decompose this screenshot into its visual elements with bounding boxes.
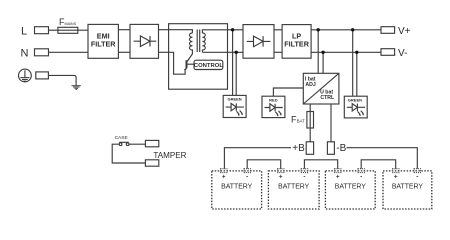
wire +B bus [224,148,291,169]
transformer T1 secondary [202,33,205,52]
wire RED LED to controller [273,88,303,96]
svg-text:BATTERY: BATTERY [278,184,310,191]
svg-text:-: - [416,173,418,180]
wire rectifier2 to LP top [274,29,282,31]
wire rectifier to converter bottom [159,51,169,53]
wire converter to rectifier2 top [228,29,244,31]
node secondary bottom [235,51,238,54]
svg-text:TAMPER: TAMPER [153,151,186,160]
control box [194,60,223,69]
earth terminal symbol [19,69,32,82]
LED box GREEN1 [223,95,246,117]
LED box GREEN2 [344,96,367,118]
wire earth [48,75,76,85]
wire ubat tap V- [322,52,324,73]
svg-text:CONTROL: CONTROL [194,63,224,69]
svg-text:CASE: CASE [115,135,128,141]
wire EMI to rectifier top [118,29,130,31]
transformer T1 primary [189,33,192,54]
wire secondary bottom [202,51,227,53]
wire N to EMI [49,51,89,53]
svg-text:+: + [394,174,398,181]
wire LED green2 anode [352,30,354,96]
svg-text:ADJ: ADJ [305,82,315,88]
wire series link2 [304,160,337,169]
label F_BAT [291,114,305,124]
wire LED green1 cathode [235,52,237,95]
battery 4 [383,169,432,209]
svg-text:-: - [303,173,305,180]
terminal V+ [381,27,395,34]
wire -B bus [347,148,418,169]
wire LED green2 cathode [356,52,358,96]
wire rectifier to converter top [159,29,169,31]
ground [72,86,81,90]
wire switch to lower tamper terminal [112,144,145,163]
terminal -B [327,142,334,155]
svg-text:GREEN: GREEN [348,97,362,102]
LED box RED [262,96,285,117]
node V- tap2 [355,51,358,54]
terminal V- [381,49,395,56]
label F_MAINS [59,17,77,27]
transformer core [197,30,200,53]
svg-text:-: - [246,173,248,180]
terminal L [35,27,49,34]
terminal +B [306,142,313,155]
battery 1 [212,169,262,209]
wire controller to battery fuse [309,104,311,142]
wire controller to -B [330,104,332,142]
wire V+ rail [311,29,381,31]
battery 3 [325,169,375,209]
wire return rail [169,52,186,74]
label LP FILTER [284,32,309,49]
tamper switch [119,142,129,145]
charge controller U2 box [303,73,339,104]
svg-text:FILTER: FILTER [91,39,116,48]
svg-text:BATTERY: BATTERY [392,184,424,191]
wire converter to rectifier2 bottom [228,51,244,53]
node secondary top [231,28,234,31]
svg-text:+: + [279,174,283,181]
svg-text:+: + [336,174,340,181]
svg-text:V+: V+ [398,26,411,37]
svg-text:V-: V- [398,48,407,59]
fuse F_BAT [307,112,314,129]
svg-text:BATTERY: BATTERY [335,184,367,191]
wire LED green1 anode [232,30,234,96]
wire ubat tap V+ [317,30,319,74]
svg-text:GREEN: GREEN [227,97,241,102]
svg-text:CTRL: CTRL [320,95,335,101]
wire primary top [169,30,193,33]
svg-text:BATTERY: BATTERY [221,184,253,191]
svg-text:FILTER: FILTER [284,40,309,49]
battery 2 [268,169,319,209]
wire L to fuse [49,29,59,31]
svg-text:L: L [21,25,27,37]
tamper terminal lower [145,160,158,166]
wire V- rail [311,51,381,53]
svg-text:RED: RED [269,97,278,102]
terminal N [35,49,49,56]
svg-text:+B: +B [292,143,305,154]
bridge rectifier D1 [130,24,159,58]
wire series link1 [247,160,281,169]
wire EMI to rectifier bottom [118,51,130,53]
svg-text:-B: -B [336,143,346,154]
rectifier D2 [243,25,274,59]
fuse F_MAINS [58,27,88,33]
wire switch to upper tamper terminal [129,143,145,145]
transistor Q1 [184,54,194,71]
earth terminal rect [36,72,49,79]
node V+ tap2 [351,28,354,31]
LP filter box [282,25,311,59]
svg-text:+: + [222,174,226,181]
node V+ tap1 [317,28,320,31]
svg-text:BAT: BAT [297,119,305,124]
wire series link3 [361,160,396,169]
wire rectifier2 to LP bottom [274,51,282,53]
wire secondary top [202,30,227,33]
label EMI FILTER [91,31,116,48]
node V- tap1 [321,51,324,54]
svg-text:MAINS: MAINS [65,22,77,26]
converter box [169,24,228,90]
svg-text:-: - [360,173,362,180]
tamper terminal upper [145,140,158,146]
svg-text:N: N [21,47,29,59]
EMI filter box [88,24,118,58]
